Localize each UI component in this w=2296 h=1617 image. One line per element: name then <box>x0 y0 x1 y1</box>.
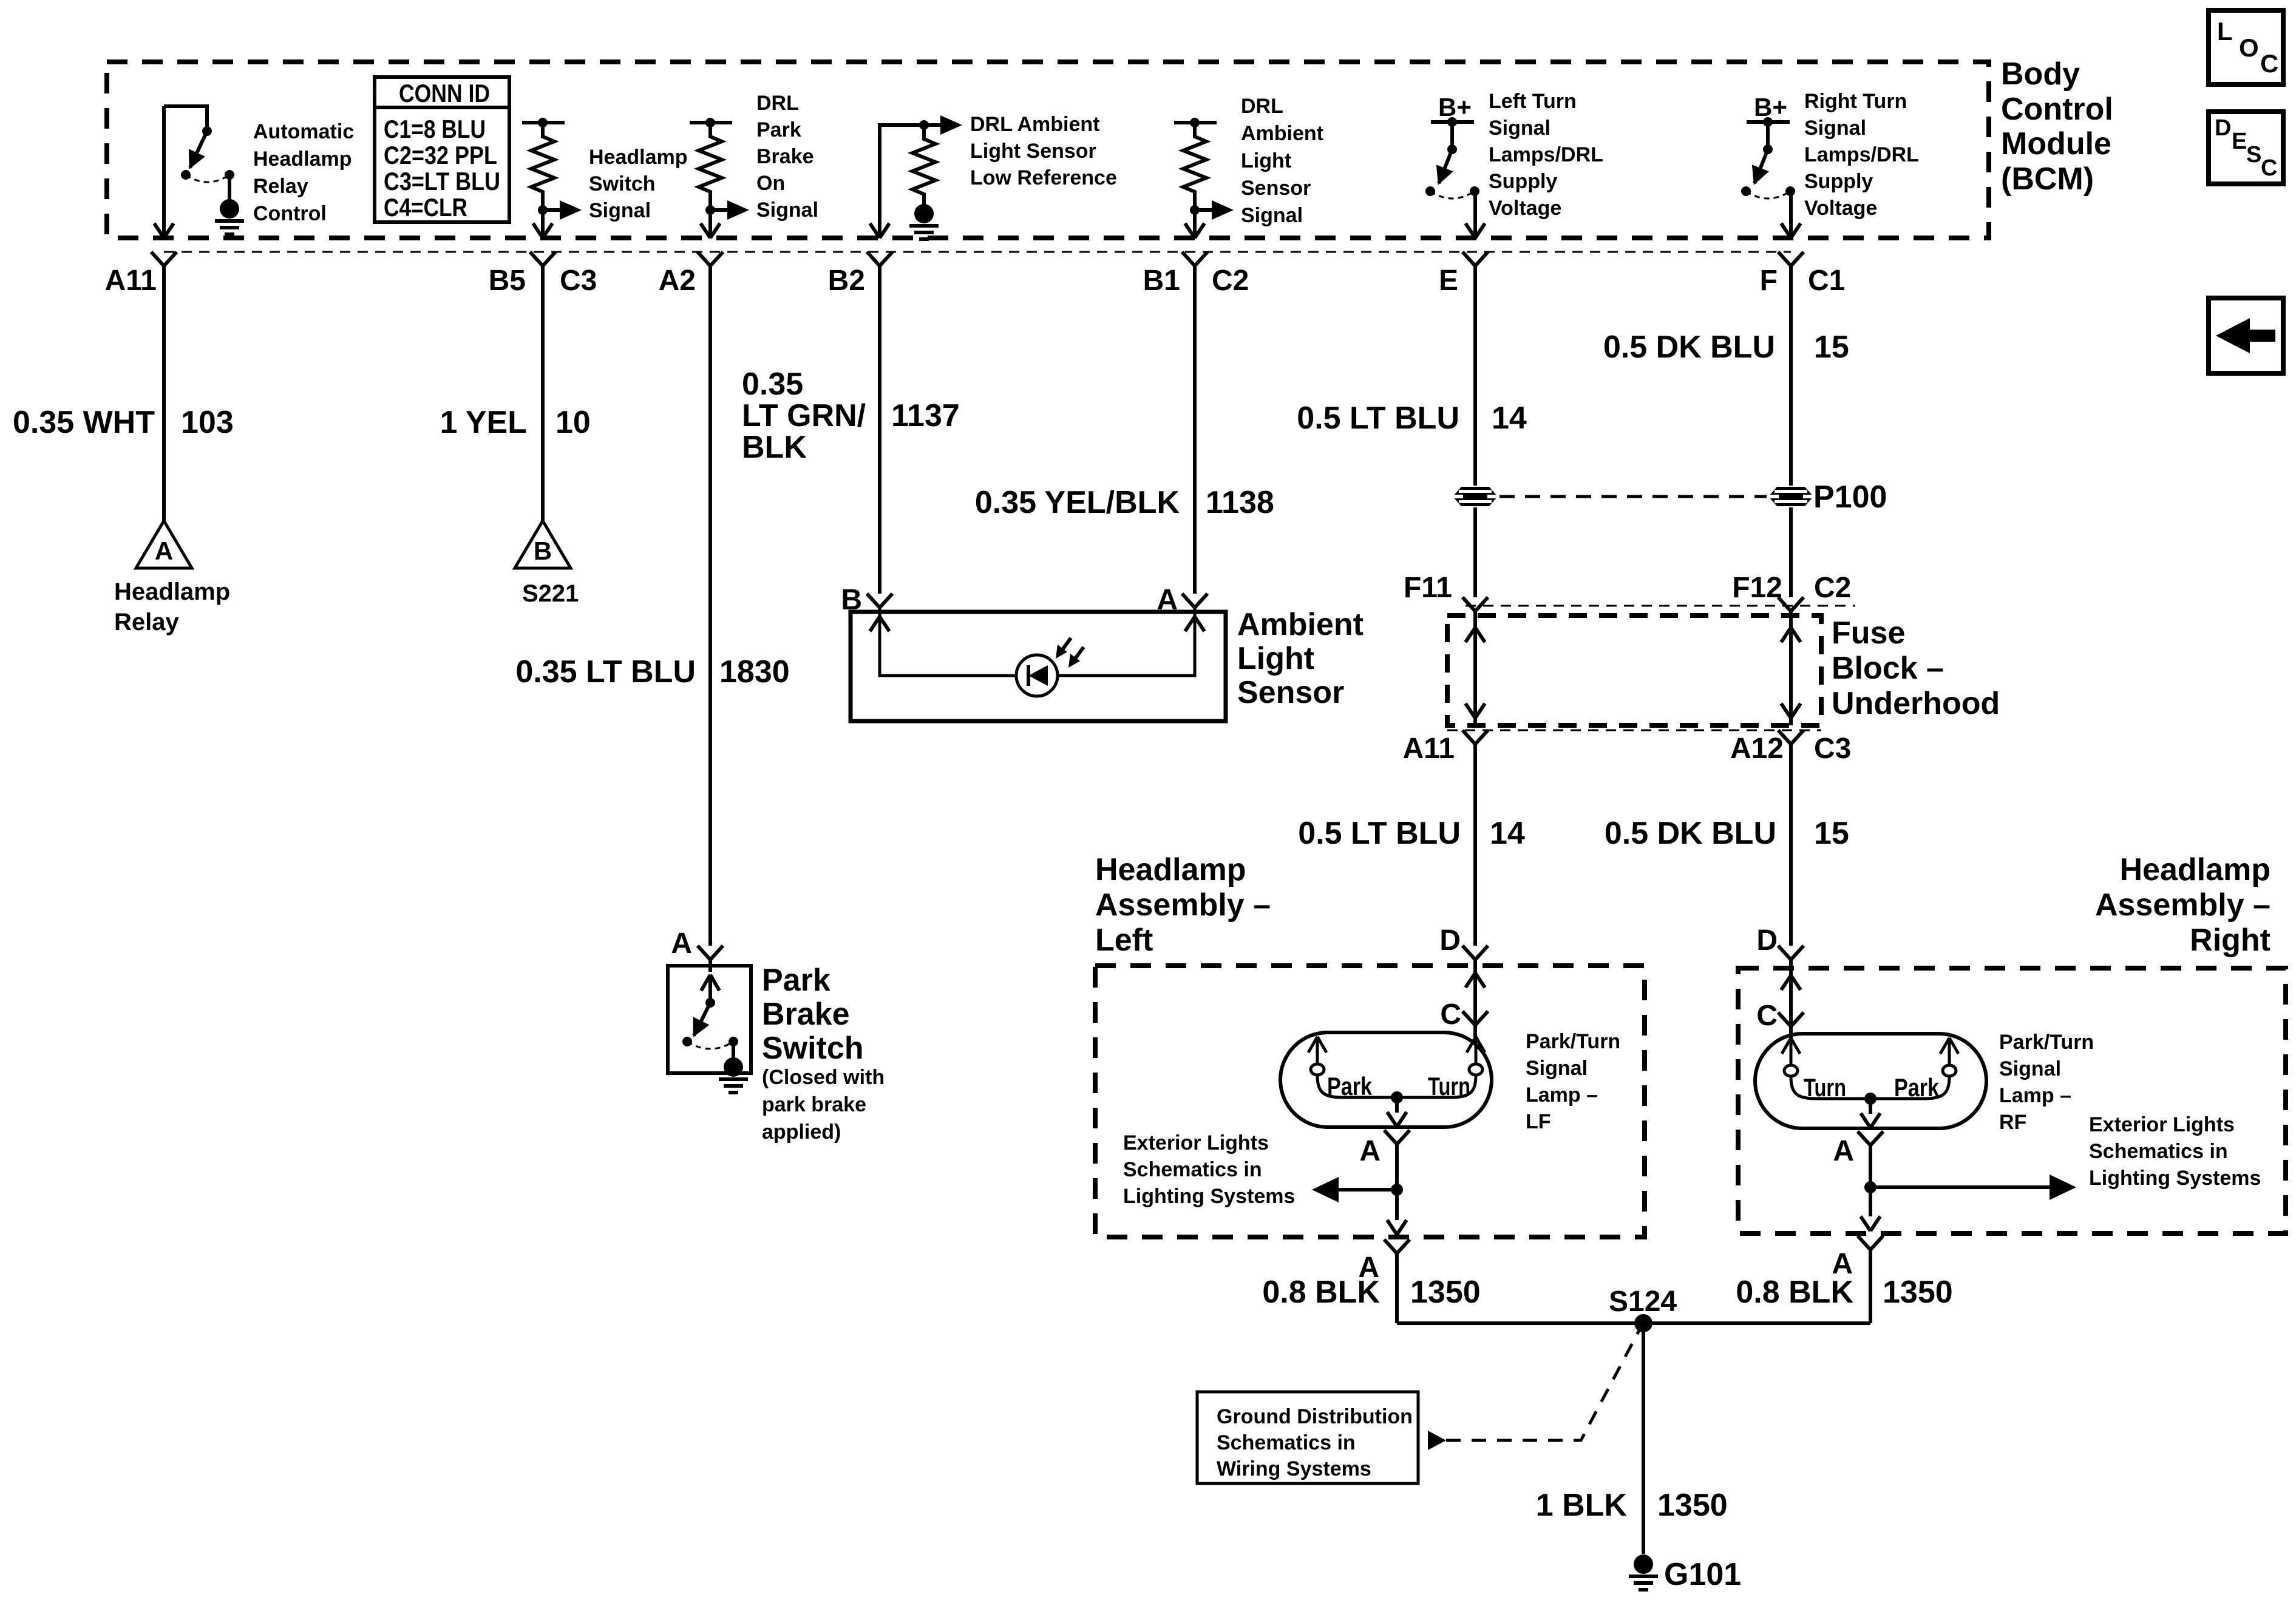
connector label C1 <box>1808 265 1845 297</box>
svg-text:Wiring Systems: Wiring Systems <box>1217 1457 1371 1480</box>
label Exterior Lights Schematics in Lighting Systems (left) <box>1123 1131 1295 1208</box>
svg-text:Signal: Signal <box>756 198 818 222</box>
svg-text:D: D <box>1756 924 1778 957</box>
svg-text:On: On <box>756 172 785 195</box>
pin label A (lamp LF) <box>1359 1135 1381 1167</box>
connector fork E <box>1462 252 1488 266</box>
pin label F <box>1760 265 1778 297</box>
pin label B2 <box>828 265 865 297</box>
svg-text:1138: 1138 <box>1206 485 1274 520</box>
connector fork sensor pin A <box>1182 594 1207 608</box>
svg-text:Headlamp: Headlamp <box>1095 852 1246 887</box>
svg-text:Signal: Signal <box>1241 204 1303 227</box>
splice S124 <box>1609 1286 1677 1332</box>
connector fork A below right box <box>1858 1236 1883 1250</box>
wire P100 to fuse block F12 <box>1789 507 1793 597</box>
wire B5 inside BCM <box>541 210 545 237</box>
pin label A11 (fuse block) <box>1403 733 1455 765</box>
svg-text:0.35 WHT: 0.35 WHT <box>13 405 155 440</box>
resistor headlamp switch signal (wire B5) <box>522 118 565 127</box>
wire ground bus <box>1397 1321 1870 1325</box>
svg-text:B5: B5 <box>489 265 526 297</box>
svg-text:Fuse: Fuse <box>1832 615 1905 651</box>
pin label A2 <box>659 265 696 297</box>
node exterior lights tap left <box>1391 1184 1403 1196</box>
svg-text:1350: 1350 <box>1410 1275 1481 1310</box>
wire 1137 (0.35 LT GRN/BLK) to ambient light sensor <box>878 266 881 594</box>
svg-text:Park: Park <box>762 963 830 998</box>
label Body Control Module (BCM) <box>2001 56 2113 197</box>
svg-text:14: 14 <box>1492 401 1527 436</box>
svg-text:S124: S124 <box>1609 1286 1677 1318</box>
svg-text:B2: B2 <box>828 265 865 297</box>
svg-text:Right Turn: Right Turn <box>1804 90 1907 113</box>
svg-text:C3=LT BLU: C3=LT BLU <box>384 167 500 195</box>
connector fork F11 <box>1462 597 1488 611</box>
arrow down at left box edge <box>1387 1220 1407 1235</box>
CONN ID table <box>375 77 509 222</box>
pin label B1 <box>1143 265 1180 297</box>
svg-text:Brake: Brake <box>756 145 814 168</box>
svg-text:Lamps/DRL: Lamps/DRL <box>1804 143 1919 166</box>
svg-text:Park/Turn: Park/Turn <box>1999 1031 2094 1054</box>
arrow to exterior lights schematics right <box>1870 1175 2076 1200</box>
svg-text:applied): applied) <box>762 1120 841 1144</box>
svg-text:Ground Distribution: Ground Distribution <box>1217 1405 1413 1428</box>
wire label 0.35 LT GRN/BLK 1137 <box>742 367 960 465</box>
wire label 0.8 BLK 1350 left <box>1262 1275 1480 1310</box>
svg-text:Schematics in: Schematics in <box>2089 1140 2228 1163</box>
svg-text:Light: Light <box>1237 641 1314 676</box>
pin label A (lamp RF) <box>1833 1135 1854 1167</box>
arrow to exterior lights schematics left <box>1312 1177 1397 1202</box>
arrow up fuse right <box>1781 628 1801 642</box>
wire tap to right box edge <box>1869 1187 1872 1216</box>
connector fork F12 <box>1778 597 1804 611</box>
label Park/Turn Signal Lamp - LF <box>1526 1030 1620 1133</box>
wire D to lamp left <box>1473 960 1477 1037</box>
switch left turn signal lamps/DRL supply (B+) <box>1425 93 1479 237</box>
pin label D (right headlamp) <box>1756 924 1778 957</box>
svg-text:Signal: Signal <box>1999 1057 2061 1080</box>
arrow at BCM edge wire F <box>1781 223 1801 238</box>
wire label 1 YEL 10 <box>440 405 590 440</box>
connector fork B5/C3 <box>530 252 555 266</box>
svg-text:14: 14 <box>1490 816 1525 851</box>
svg-text:C: C <box>1756 1000 1778 1032</box>
note box ground distribution <box>1197 1392 1418 1483</box>
svg-text:103: 103 <box>181 405 234 440</box>
svg-text:Turn: Turn <box>1428 1072 1470 1100</box>
svg-text:P100: P100 <box>1813 480 1887 515</box>
label Automatic Headlamp Relay Control <box>253 120 354 225</box>
arrow down lamp LF exit <box>1387 1112 1407 1127</box>
svg-text:0.5 DK BLU: 0.5 DK BLU <box>1603 330 1775 365</box>
label Exterior Lights Schematics in Lighting Systems (right) <box>2089 1113 2261 1190</box>
connector fork D left <box>1462 946 1488 960</box>
svg-text:Schematics in: Schematics in <box>1123 1158 1262 1181</box>
label Turn (LF) <box>1428 1072 1470 1100</box>
label Ambient Light Sensor <box>1237 607 1364 710</box>
wire label 0.5 LT BLU 14 upper <box>1297 401 1527 436</box>
svg-text:Exterior Lights: Exterior Lights <box>2089 1113 2235 1136</box>
svg-text:F12: F12 <box>1732 572 1782 604</box>
svg-text:Left: Left <box>1095 923 1153 958</box>
svg-text:Exterior Lights: Exterior Lights <box>1123 1131 1269 1154</box>
ground G101 <box>1629 1554 1658 1590</box>
wire P100 to fuse block F11 <box>1473 507 1477 597</box>
right headlamp assembly dashed box <box>1738 968 2286 1233</box>
svg-text:A: A <box>671 927 692 960</box>
lamp RF turn filament <box>1782 1038 1816 1099</box>
svg-text:Module: Module <box>2001 126 2111 161</box>
svg-text:C3: C3 <box>1814 733 1851 765</box>
label P100 <box>1813 480 1887 515</box>
arrow at BCM edge wire B2 <box>870 223 889 238</box>
lamp E2 park/turn signal lamp RF outline <box>1755 1034 1986 1128</box>
fuse block underhood dashed box <box>1447 615 1821 725</box>
svg-text:O: O <box>2239 33 2259 62</box>
svg-text:Light Sensor: Light Sensor <box>970 140 1096 163</box>
arrow at BCM edge wire A11 <box>154 223 174 238</box>
connector fork A11 (fuse block) <box>1462 730 1488 744</box>
svg-text:A2: A2 <box>659 265 696 297</box>
svg-text:S: S <box>2246 142 2261 168</box>
connector fork B1/C2 <box>1182 252 1207 266</box>
svg-text:1350: 1350 <box>1883 1275 1953 1310</box>
connector fork A below left box <box>1384 1239 1410 1253</box>
wire label 0.35 WHT 103 <box>13 405 234 440</box>
svg-text:1137: 1137 <box>891 398 960 433</box>
svg-text:C2: C2 <box>1814 572 1851 604</box>
arrow up fuse left <box>1466 628 1485 642</box>
pin label A (ambient light sensor) <box>1156 584 1178 616</box>
svg-text:Relay: Relay <box>253 175 308 198</box>
lamp LF park filament <box>1308 1037 1343 1097</box>
label Headlamp Assembly - Left <box>1095 852 1271 958</box>
label Park Brake Switch <box>762 963 864 1066</box>
wire label 0.5 DK BLU 15 lower <box>1605 816 1849 851</box>
switch lever park brake switch <box>682 975 738 1059</box>
svg-text:Signal: Signal <box>589 199 651 222</box>
arrow at BCM edge wire B1 <box>1185 223 1204 238</box>
svg-text:DRL Ambient: DRL Ambient <box>970 113 1099 136</box>
connector fork B2 <box>867 252 892 266</box>
arrow up inside right box <box>1781 975 1801 990</box>
wire D to lamp right <box>1789 960 1793 1039</box>
svg-text:0.8 BLK: 0.8 BLK <box>1736 1275 1853 1310</box>
wire stub into park brake switch <box>708 960 712 972</box>
connector fork A12 (fuse block) <box>1778 730 1804 744</box>
svg-text:Park/Turn: Park/Turn <box>1526 1030 1620 1053</box>
svg-text:0.35 LT BLU: 0.35 LT BLU <box>515 654 696 690</box>
svg-text:15: 15 <box>1814 816 1849 851</box>
svg-text:B+: B+ <box>1438 93 1472 121</box>
svg-text:0.35: 0.35 <box>742 367 803 402</box>
svg-text:A12: A12 <box>1730 733 1784 765</box>
arrow up sensor left leg <box>870 617 889 631</box>
svg-text:Signal: Signal <box>1804 117 1866 140</box>
dashed leader arrow to S124 <box>1428 1331 1639 1450</box>
lamp LF common bus <box>1343 1096 1450 1099</box>
svg-text:RF: RF <box>1999 1111 2026 1134</box>
svg-text:LF: LF <box>1526 1110 1551 1133</box>
node junction and signal arrow (DRL park brake on) <box>705 200 749 220</box>
svg-text:10: 10 <box>555 405 591 440</box>
connector label C2 <box>1212 265 1249 297</box>
note (Closed with park brake applied) <box>762 1066 885 1144</box>
sensor box ambient light sensor <box>851 612 1226 721</box>
svg-text:park brake: park brake <box>762 1093 866 1116</box>
sensor internal wiring right leg <box>1058 608 1195 676</box>
svg-text:Signal: Signal <box>1489 117 1550 140</box>
wire B2 riser and bend inside BCM <box>880 125 924 237</box>
svg-text:Underhood: Underhood <box>1832 686 2000 721</box>
inline connector P100 left half <box>1453 487 1498 506</box>
arrow up inside left box <box>1466 973 1485 988</box>
svg-text:B1: B1 <box>1143 265 1180 297</box>
svg-text:1 BLK: 1 BLK <box>1536 1488 1628 1523</box>
BCM connector row dashed line <box>164 251 1791 253</box>
svg-text:B+: B+ <box>1754 93 1787 121</box>
wire S124 to G101 (1 BLK 1350) <box>1642 1323 1645 1554</box>
svg-text:C2=32 PPL: C2=32 PPL <box>384 141 497 169</box>
svg-text:C1=8 BLU: C1=8 BLU <box>384 115 486 143</box>
svg-text:C: C <box>1440 998 1461 1031</box>
svg-text:Park: Park <box>1894 1073 1940 1102</box>
svg-text:F11: F11 <box>1404 572 1452 604</box>
label Fuse Block - Underhood <box>1832 615 2000 721</box>
svg-text:D: D <box>1439 924 1461 957</box>
wire fuse block to right headlamp (0.5 DK BLU 15) <box>1789 744 1793 946</box>
wire fuse block to left headlamp (0.5 LT BLU 14) <box>1473 744 1477 946</box>
arrow at BCM edge wire E <box>1466 223 1485 238</box>
svg-text:Voltage: Voltage <box>1804 197 1877 220</box>
pin label A (below left box) <box>1358 1252 1379 1284</box>
svg-text:A: A <box>1833 1135 1854 1167</box>
svg-text:Assembly –: Assembly – <box>1095 887 1271 923</box>
wire lamp LF to exterior lights tap <box>1395 1144 1399 1190</box>
pin label B5 <box>489 265 526 297</box>
svg-text:Control: Control <box>2001 92 2113 127</box>
switch S automatic headlamp relay control (in BCM) <box>164 106 234 200</box>
svg-text:Brake: Brake <box>762 997 850 1032</box>
wire 103 (0.35 WHT) to headlamp relay <box>162 266 166 523</box>
pin label F12 <box>1732 572 1782 604</box>
wire 10 (1 YEL) to splice S221 <box>541 266 545 523</box>
photodiode D1 ambient light sensor <box>1016 638 1084 696</box>
connector tie line P100 <box>1500 495 1767 498</box>
svg-text:Turn: Turn <box>1804 1073 1846 1102</box>
sensor internal wiring left leg <box>880 608 1016 676</box>
pin label A (park brake switch) <box>671 927 692 960</box>
pin label A11 <box>105 265 157 297</box>
lamp RF park filament <box>1924 1038 1958 1099</box>
connector fork C right <box>1778 1012 1804 1026</box>
label Headlamp Switch Signal <box>589 146 688 222</box>
svg-text:A: A <box>155 537 173 565</box>
svg-text:Light: Light <box>1241 149 1291 172</box>
svg-text:DRL: DRL <box>756 92 799 115</box>
svg-text:1 YEL: 1 YEL <box>440 405 527 440</box>
svg-text:Left Turn: Left Turn <box>1489 90 1577 113</box>
off-page triangle A headlamp relay <box>136 521 192 568</box>
svg-text:Low Reference: Low Reference <box>970 166 1117 189</box>
wire 1350 right (0.8 BLK) <box>1869 1250 1872 1323</box>
resistor DRL ambient light sensor signal (wire B1) <box>1174 118 1217 127</box>
left headlamp assembly dashed box <box>1095 966 1645 1237</box>
wire B1 inside BCM <box>1193 210 1197 237</box>
svg-text:Sensor: Sensor <box>1237 675 1344 710</box>
connector label C3 (fuse block) <box>1814 733 1851 765</box>
svg-text:L: L <box>2217 17 2233 46</box>
svg-text:Headlamp: Headlamp <box>114 578 230 605</box>
label DRL Park Brake On Signal <box>756 92 818 222</box>
connector fork sensor pin B <box>867 594 892 608</box>
resistor DRL park brake on signal (wire A2) <box>690 118 732 127</box>
connector fork park brake switch pin A <box>698 946 723 960</box>
DESC legend box <box>2209 112 2283 184</box>
svg-text:E: E <box>2232 129 2247 154</box>
svg-text:A11: A11 <box>105 265 157 297</box>
svg-text:S221: S221 <box>522 580 579 607</box>
svg-text:Park: Park <box>1327 1072 1373 1100</box>
label Headlamp Relay <box>114 578 230 636</box>
inline connector P100 right half <box>1768 487 1813 506</box>
svg-text:Sensor: Sensor <box>1241 177 1311 200</box>
svg-text:C1: C1 <box>1808 265 1845 297</box>
label Park/Turn Signal Lamp - RF <box>1999 1031 2094 1134</box>
svg-text:Lighting Systems: Lighting Systems <box>1123 1185 1295 1208</box>
svg-text:0.5 DK BLU: 0.5 DK BLU <box>1605 816 1776 851</box>
pin label F11 <box>1404 572 1452 604</box>
arrow at BCM edge wire B5 <box>533 223 552 238</box>
svg-text:Supply: Supply <box>1489 170 1557 193</box>
svg-text:C2: C2 <box>1212 265 1249 297</box>
pin label C (right lamp) <box>1756 1000 1778 1032</box>
arrow down at right box edge <box>1861 1216 1880 1231</box>
svg-text:Supply: Supply <box>1804 170 1873 193</box>
svg-text:1830: 1830 <box>719 654 790 690</box>
label S221 <box>522 580 579 607</box>
svg-text:Ambient: Ambient <box>1241 122 1323 145</box>
arrow down lamp RF exit <box>1861 1113 1880 1128</box>
label G101 <box>1664 1557 1741 1592</box>
svg-text:Signal: Signal <box>1526 1057 1588 1080</box>
svg-text:Automatic: Automatic <box>253 120 354 143</box>
svg-text:B: B <box>534 537 552 565</box>
svg-text:DRL: DRL <box>1241 95 1283 118</box>
svg-text:F: F <box>1760 265 1778 297</box>
fuse block internal path left <box>1473 611 1477 725</box>
svg-text:A: A <box>1359 1135 1381 1167</box>
svg-text:C4=CLR: C4=CLR <box>384 193 467 222</box>
svg-text:Block –: Block – <box>1832 651 1944 686</box>
off-page triangle B splice S221 <box>515 521 571 568</box>
resistor DRL ambient light sensor low reference <box>912 126 936 212</box>
pin label A (below right box) <box>1832 1248 1853 1280</box>
svg-text:D: D <box>2215 115 2231 141</box>
svg-text:A11: A11 <box>1403 733 1455 765</box>
svg-text:Switch: Switch <box>589 172 656 195</box>
wire 15 (0.5 DK BLU) BCM F to P100 <box>1789 266 1793 486</box>
svg-text:Park: Park <box>756 118 801 141</box>
svg-text:Lamp –: Lamp – <box>1526 1083 1598 1107</box>
lamp LF turn filament <box>1450 1037 1485 1097</box>
node lamp LF common junction <box>1391 1091 1403 1113</box>
label DRL Ambient Light Sensor Signal <box>1241 95 1323 227</box>
pin label B (ambient light sensor) <box>841 584 862 616</box>
label Park (RF) <box>1894 1073 1940 1102</box>
connector label C2 (fuse block) <box>1814 572 1851 604</box>
connector fork C left <box>1462 1011 1488 1025</box>
svg-text:Switch: Switch <box>762 1031 864 1066</box>
svg-text:Right: Right <box>2190 923 2271 958</box>
svg-text:C: C <box>2261 155 2277 181</box>
svg-text:0.35 YEL/BLK: 0.35 YEL/BLK <box>975 485 1180 520</box>
lamp RF common bus <box>1816 1097 1924 1100</box>
pin label E <box>1439 265 1458 297</box>
wire label 0.35 LT BLU 1830 <box>515 654 789 690</box>
svg-text:Control: Control <box>253 202 327 225</box>
ground (park brake switch) <box>719 1057 748 1093</box>
node exterior lights tap right <box>1864 1181 1877 1193</box>
svg-text:0.5 LT BLU: 0.5 LT BLU <box>1298 816 1461 851</box>
arrow up sensor right leg <box>1185 617 1204 631</box>
arrow down fuse right <box>1781 703 1801 718</box>
svg-text:Headlamp: Headlamp <box>589 146 688 169</box>
svg-text:Body: Body <box>2001 56 2080 92</box>
svg-text:Ambient: Ambient <box>1237 607 1364 642</box>
connector fork D right <box>1778 946 1804 960</box>
node junction and signal arrow (headlamp switch signal) <box>538 200 582 220</box>
svg-text:LT GRN/: LT GRN/ <box>742 398 866 433</box>
pin label A12 (fuse block) <box>1730 733 1784 765</box>
ground (relay control contact) <box>215 199 244 234</box>
svg-text:0.8 BLK: 0.8 BLK <box>1262 1275 1380 1310</box>
label Turn (RF) <box>1804 1073 1846 1102</box>
fuse block connector row lower dashed <box>1447 730 1821 731</box>
wire 1138 (0.35 YEL/BLK) to ambient light sensor <box>1193 266 1197 594</box>
switch right turn signal lamps/DRL supply (B+) <box>1741 93 1795 237</box>
svg-text:G101: G101 <box>1664 1557 1741 1592</box>
wire 14 (0.5 LT BLU) BCM E to P100 <box>1473 266 1477 486</box>
back-arrow legend box <box>2209 298 2283 373</box>
connector fork A below lamp LF <box>1384 1130 1410 1144</box>
svg-text:Voltage: Voltage <box>1489 197 1561 220</box>
svg-text:1350: 1350 <box>1657 1488 1728 1523</box>
wire label 0.8 BLK 1350 right <box>1736 1275 1952 1310</box>
arrow down fuse left <box>1466 703 1485 718</box>
connector label C3 <box>560 265 597 297</box>
pin label D (left headlamp) <box>1439 924 1461 957</box>
svg-text:Schematics in: Schematics in <box>1217 1431 1356 1454</box>
node junction and signal arrow (DRL ambient light sensor signal) <box>1190 200 1234 220</box>
label DRL Ambient Light Sensor Low Reference <box>970 113 1117 189</box>
wire 1830 (0.35 LT BLU) to park brake switch <box>708 266 712 946</box>
fuse block connector row upper dashed <box>1466 605 1855 607</box>
fuse block internal path right <box>1789 611 1793 725</box>
wire label 0.5 LT BLU 14 lower <box>1298 816 1525 851</box>
node junction and arrow DRL ambient light sensor low reference <box>919 115 962 135</box>
wire A11 inside BCM <box>162 106 166 237</box>
lamp E1 park/turn signal lamp LF outline <box>1280 1032 1492 1127</box>
svg-text:Lamp –: Lamp – <box>1999 1084 2071 1107</box>
svg-text:Lighting Systems: Lighting Systems <box>2089 1167 2261 1190</box>
svg-text:C3: C3 <box>560 265 597 297</box>
svg-text:(BCM): (BCM) <box>2001 161 2094 197</box>
wire lamp RF to exterior lights tap <box>1869 1145 1872 1187</box>
